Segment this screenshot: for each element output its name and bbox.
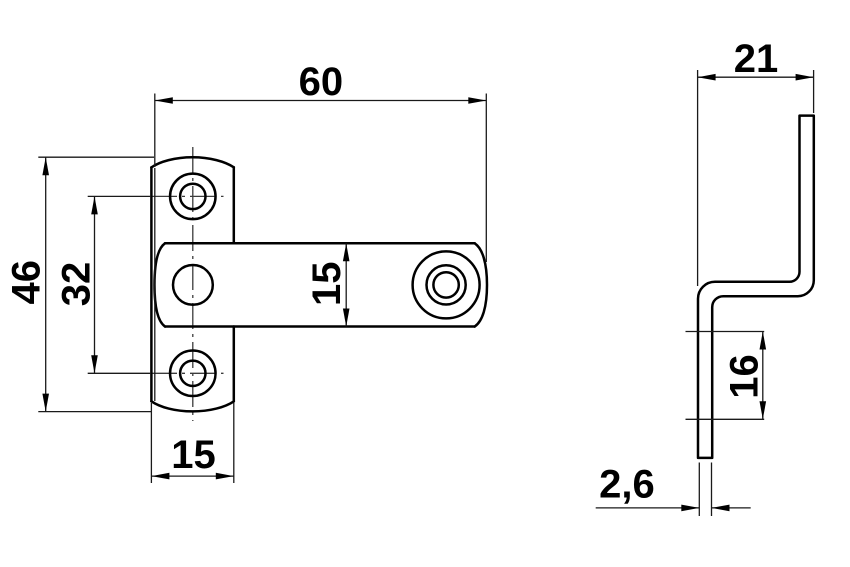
svg-text:60: 60 <box>299 60 344 104</box>
svg-text:15: 15 <box>171 433 216 477</box>
svg-text:15: 15 <box>305 262 349 307</box>
svg-text:16: 16 <box>723 354 767 399</box>
svg-text:2,6: 2,6 <box>599 463 655 507</box>
svg-text:46: 46 <box>5 260 49 305</box>
svg-text:32: 32 <box>55 262 99 307</box>
svg-text:21: 21 <box>734 37 779 81</box>
